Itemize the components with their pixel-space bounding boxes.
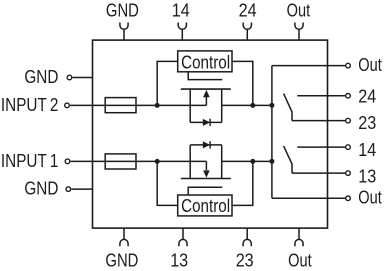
wire 24 contact [297,95,345,97]
wire 14 contact [297,146,345,148]
svg-text:GND: GND [24,67,58,87]
wire 23 contact [292,120,345,122]
svg-text:Control: Control [181,195,230,216]
svg-text:GND: GND [24,179,58,199]
top terminal GND (socket symbol) [120,23,128,41]
node junction (control left / main, bottom) [155,159,160,164]
wire control U1 gate lead [188,72,222,80]
wire 13 contact [292,172,345,174]
left terminal GND2 circle [66,187,71,192]
left terminal INPUT 2 circle [65,103,70,108]
mosfet Q2 body top wire [190,144,222,146]
wire GND2 to box [71,188,92,190]
wire control U1 right to main [232,61,253,105]
fuse F (INPUT 2) [105,98,136,113]
wire INPUT 1 main (through fuse to mosfet arrow stem) [71,160,207,162]
switch S2 blade (14-13) [284,146,292,173]
bottom terminal Out (socket symbol) [295,228,303,246]
svg-text:GND: GND [105,251,138,271]
bottom terminal GND (socket symbol) [120,228,128,246]
control box U1 (top) [178,51,232,72]
wire Q2 output to bus [222,160,272,162]
mosfet Q2 gate plate [181,178,231,180]
mosfet Q1 substrate arrow (up) [203,90,210,106]
svg-text:GND: GND [106,1,139,21]
svg-text:INPUT 1: INPUT 1 [1,151,59,171]
svg-text:23: 23 [358,113,376,133]
diode D1 (body diode) [203,119,210,126]
diode D2 (body diode) [203,141,210,148]
bottom terminal 13 (socket symbol) [179,228,187,246]
node junction (bus / main, top) [269,103,274,108]
right terminal Out top circle [346,63,351,68]
svg-text:Out: Out [358,188,382,208]
wire control U2 right to main [232,161,253,205]
wire control U2 left to main [157,161,178,205]
svg-text:Out: Out [358,55,382,75]
mosfet Q1 body left leg [189,89,191,122]
right terminal 24 circle [346,94,351,99]
right terminal 14 circle [346,145,351,150]
fuse F (INPUT 1) [105,154,136,169]
top terminal 24 (socket symbol) [243,23,251,41]
svg-text:23: 23 [236,251,254,271]
svg-text:13: 13 [170,251,188,271]
mosfet Q2 body right leg [221,145,223,179]
svg-text:13: 13 [358,166,376,186]
mosfet Q2 body left leg [189,145,191,179]
right terminal Out bottom circle [346,196,351,201]
node junction (control right / main, bottom) [250,159,255,164]
top terminal 14 (socket symbol) [178,23,186,41]
switch S1 blade (24-23) [284,94,292,121]
svg-text:24: 24 [239,1,257,21]
device outline box [93,40,328,228]
node junction (control right / main, top) [250,103,255,108]
right terminal 23 circle [346,118,351,123]
svg-text:14: 14 [172,1,190,21]
mosfet Q1 body right leg [221,89,223,122]
wire Out bottom [272,197,345,199]
mosfet Q2 substrate arrow (down) [203,161,210,177]
wire INPUT 2 main (through fuse to mosfet arrow stem) [70,104,206,106]
top terminal Out (socket symbol) [295,23,303,41]
wire control U1 left to main [157,61,178,105]
node junction (control left / main, top) [155,103,160,108]
wire GND to box [73,77,93,79]
mosfet Q1 body bottom wire [190,121,222,123]
svg-text:Out: Out [288,251,312,271]
wire output bus vertical [271,66,273,199]
mosfet Q1 gate plate [181,88,231,90]
bottom terminal 23 (socket symbol) [243,228,251,246]
right terminal 13 circle [346,171,351,176]
wire Out top [272,65,345,67]
wire control U2 gate lead [188,187,222,195]
left terminal GND circle [67,75,72,80]
wire Q1 output to bus [222,104,272,106]
control box U2 (bottom) [178,195,232,216]
svg-text:24: 24 [358,86,376,106]
svg-text:14: 14 [358,140,376,160]
svg-text:Out: Out [287,1,311,21]
node junction (bus / main, bottom) [269,159,274,164]
svg-text:INPUT 2: INPUT 2 [1,95,59,115]
left terminal INPUT 1 circle [65,159,70,164]
svg-text:Control: Control [181,52,230,73]
